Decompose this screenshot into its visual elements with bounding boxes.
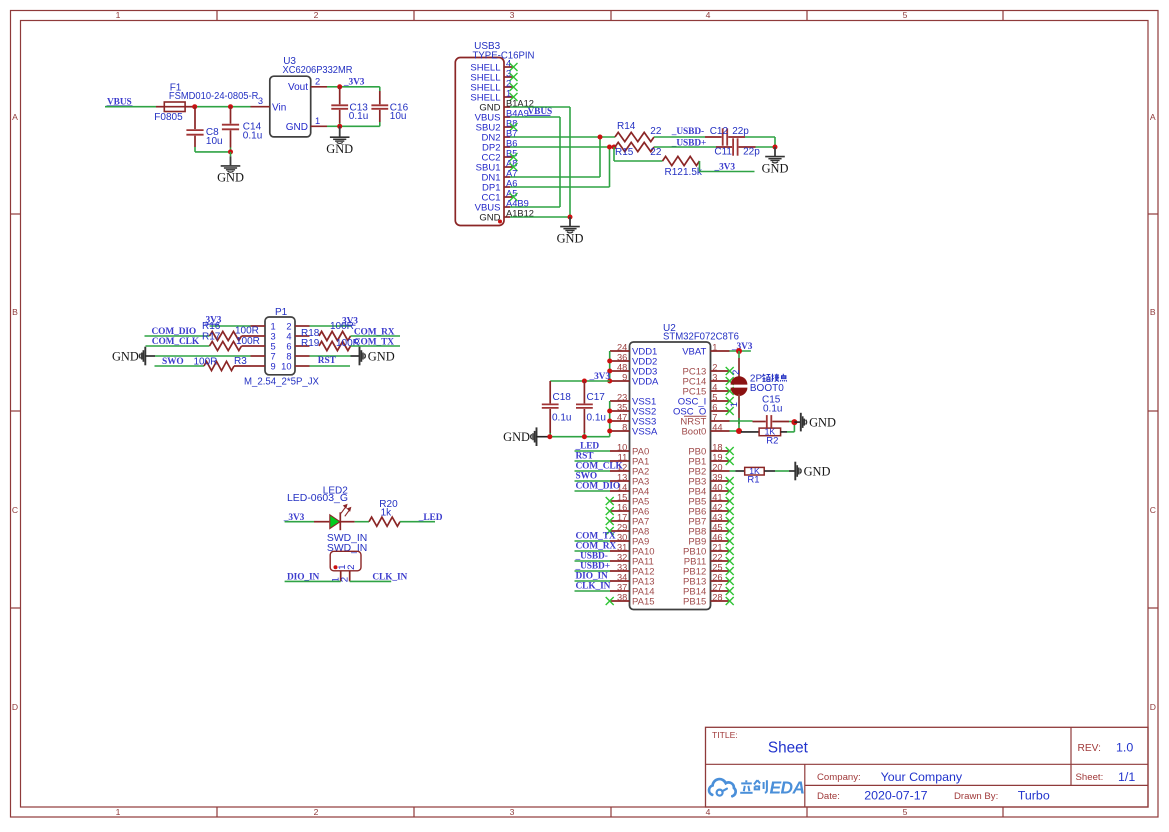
ground flag left [503,427,547,446]
svg-text:0.1u: 0.1u [243,130,262,141]
svg-text:4: 4 [706,807,711,817]
svg-text:31: 31 [617,542,627,552]
resistor R1 1K [736,466,796,486]
wire pin8 to GND [310,355,360,357]
net label COM_TX [576,532,616,542]
resistor R2 1K [741,427,787,447]
pin 2 PC13 [683,362,734,377]
svg-text:R17: R17 [202,331,221,342]
svg-text:3: 3 [271,331,276,341]
wire [575,580,611,582]
net label SWO [162,357,184,367]
svg-text:A5: A5 [506,188,517,198]
svg-text:Date:: Date: [817,791,840,802]
pin 9 VDDA [610,372,659,387]
svg-text:1.0: 1.0 [1116,741,1133,755]
capacitor C18 [542,381,572,437]
svg-text:_3V3: _3V3 [714,163,736,173]
svg-text:45: 45 [712,522,722,532]
svg-text:Sheet: Sheet [768,739,809,756]
pin 33 PA12 [610,562,655,577]
svg-text:15: 15 [617,492,627,502]
svg-text:23: 23 [617,392,627,402]
svg-text:R19: R19 [301,338,320,349]
net label COM_CLK [152,337,200,347]
ground [557,217,584,245]
junction [773,145,778,150]
label 2P short point [750,374,787,395]
wire DN2/DN1 [510,137,615,177]
svg-text:PB15: PB15 [683,596,706,607]
pin 10 PA0 [610,442,649,457]
svg-text:10: 10 [617,442,627,452]
resistor R16 [202,321,259,341]
pin B6 DP2 [482,138,517,153]
pin 48 VDD3 [610,362,657,377]
svg-text:_USBD-: _USBD- [671,127,704,137]
svg-text:D: D [12,702,18,712]
wire F1 to U3 Vin [194,106,250,108]
svg-text:R3: R3 [234,356,247,367]
pin 16 PA6 [606,502,650,517]
svg-text:40: 40 [712,482,722,492]
wire SWO [155,365,205,367]
wire GND rail [340,125,380,127]
pin 45 PB8 [688,522,733,537]
net label USBD- [575,552,608,562]
svg-text:R1: R1 [747,475,759,486]
svg-text:34: 34 [617,572,627,582]
svg-text:21: 21 [712,542,722,552]
svg-text:37: 37 [617,582,627,592]
pin 19 PB1 [688,452,733,467]
svg-text:1/1: 1/1 [1118,770,1135,784]
svg-text:2: 2 [314,807,319,817]
svg-text:2: 2 [314,10,319,20]
svg-text:A: A [1150,112,1156,122]
pin 38 PA15 [606,592,655,607]
pin 24 VDD1 [610,342,657,357]
svg-text:VBAT: VBAT [682,346,706,357]
svg-text:FSMD010-24-0805-R: FSMD010-24-0805-R [169,91,259,102]
svg-text:C: C [12,505,18,515]
pin 32 PA11 [610,552,654,567]
svg-text:Sheet:: Sheet: [1076,772,1104,783]
wire [575,560,611,562]
pin 12 PA2 [610,462,649,477]
pin A6 DP1 [482,178,517,193]
wire COM_DIO [145,335,210,337]
net label 3V3 [589,372,611,382]
wire GND B1A12 [510,107,570,217]
svg-text:1: 1 [315,116,320,126]
svg-text:GND: GND [503,430,530,444]
svg-text:C17: C17 [587,392,606,403]
svg-text:A8: A8 [506,158,517,168]
LED LED2 LED-0603_G [287,485,355,530]
svg-text:1: 1 [728,402,739,407]
pin 25 PB12 [683,562,734,577]
svg-text:2: 2 [730,370,741,375]
svg-text:44: 44 [712,422,722,432]
capacitor C14 [222,107,262,152]
net label 3V3 [205,316,222,326]
junction [337,84,342,89]
svg-text:Your Company: Your Company [881,770,963,784]
svg-text:22: 22 [712,552,722,562]
svg-text:22p: 22p [732,126,749,137]
svg-text:R15: R15 [615,147,634,158]
wire [575,540,611,542]
net label 3V3 [731,342,753,352]
pin 22 PB11 [684,552,734,567]
resistor R19 [301,338,360,351]
svg-text:2: 2 [346,565,357,570]
junction [192,104,197,109]
pin B4A9 VBUS [475,108,529,123]
svg-text:R12: R12 [665,167,684,178]
svg-text:41: 41 [712,492,722,502]
svg-text:4: 4 [286,331,291,341]
svg-text:_LED: _LED [418,513,443,523]
svg-text:VDDA: VDDA [632,376,659,387]
svg-text:Drawn By:: Drawn By: [954,791,998,802]
svg-text:BOOT0: BOOT0 [750,383,784,394]
svg-text:100R: 100R [235,326,259,337]
junction [791,419,797,425]
svg-text:4: 4 [712,382,717,392]
net label COM_RX [354,327,395,337]
wire C8 to C14 bottom [195,151,231,153]
pin A1B12 GND [479,208,534,223]
svg-text:TYPE-C16PIN: TYPE-C16PIN [473,50,535,61]
net label COM_DIO [152,327,197,337]
svg-text:32: 32 [617,552,627,562]
pin A8 SBU1 [476,158,518,173]
svg-text:GND: GND [809,416,836,430]
svg-text:48: 48 [617,362,627,372]
capacitor C11 [714,138,760,157]
ground [326,126,353,156]
svg-text:10u: 10u [206,136,223,147]
svg-text:10u: 10u [390,111,407,122]
svg-text:5: 5 [271,341,276,351]
svg-text:28: 28 [712,592,722,602]
wire PB2 row [730,470,736,472]
ground flag left [112,347,155,366]
pin 17 PA7 [606,512,650,527]
wire Boot0 row [730,430,740,432]
svg-text:42: 42 [712,502,722,512]
svg-text:46: 46 [712,532,722,542]
svg-text:TITLE:: TITLE: [712,730,738,740]
net label VBUS [107,98,133,108]
svg-text:GND: GND [804,465,831,479]
MCU U2 STM32F072C8T6 [630,323,740,610]
svg-text:Company:: Company: [817,772,861,783]
pin 11 PA1 [610,452,649,467]
pin 8 VSSA [610,422,658,437]
capacitor C8 [186,107,222,152]
svg-text:REV:: REV: [1078,743,1101,754]
pin 41 PB5 [688,492,733,507]
net label 3V3 [341,317,358,327]
svg-text:Boot0: Boot0 [681,426,706,437]
pin 44 Boot0 [681,422,729,437]
pin 36 VDD2 [610,352,657,367]
wire R18 to COM_RX [351,335,401,337]
svg-text:R14: R14 [617,121,636,132]
pin B8 SBU2 [476,118,518,133]
svg-text:P1: P1 [275,307,288,318]
regulator U3 XC6206P332MR [270,56,353,137]
svg-text:17: 17 [617,512,627,522]
net label RST [318,356,337,366]
svg-text:25: 25 [712,562,722,572]
net label COM_TX [354,337,394,347]
pin A5 CC1 [481,188,517,203]
svg-text:100R: 100R [236,336,260,347]
svg-text:3: 3 [510,807,515,817]
net label COM_CLK [576,462,624,472]
wire [575,480,611,482]
pin 2 SHELL [470,78,517,93]
wire R15 to C11 [654,146,716,148]
junction [228,104,233,109]
pin 30 PA9 [610,532,649,547]
wire C15 to GND [789,421,794,423]
jumper 2P short point BOOT0 [728,351,747,431]
svg-text:Vout: Vout [288,82,308,93]
wire 3V3 to pin1 [210,325,251,327]
svg-text:22: 22 [650,126,662,137]
wire [575,550,611,552]
pin B7 DN2 [481,128,517,143]
wire GND to pin7 [155,355,251,357]
pin 29 PA8 [606,522,650,537]
svg-text:0.1u: 0.1u [552,412,571,423]
pin 20 PB2 [688,462,729,477]
capacitor C12 [705,126,749,146]
pin 5 OSC_I [678,392,734,407]
junction [607,145,617,150]
svg-text:22: 22 [650,147,662,158]
svg-text:GND: GND [217,171,244,185]
wire [575,470,611,472]
wire C12 to GND [745,137,775,147]
svg-text:29: 29 [617,522,627,532]
junction [337,124,342,129]
svg-text:5: 5 [712,392,717,402]
svg-text:27: 27 [712,582,722,592]
svg-text:16: 16 [617,502,627,512]
wire CLK_IN [350,580,392,582]
pin 18 PB0 [688,442,733,457]
net label CLK_IN [372,573,407,583]
pin 3 SHELL [470,68,517,83]
ground [217,152,244,185]
pin 43 PB7 [688,512,733,527]
wire VBAT to 3V3 [730,350,751,352]
ground flag right [794,413,836,432]
pin 1 [331,571,342,583]
pin 46 PB9 [688,532,733,547]
wire GND rail [548,436,610,438]
svg-text:39: 39 [712,472,722,482]
connector USB3 TYPE-C16PIN [455,41,534,225]
svg-text:XC6206P332MR: XC6206P332MR [283,65,353,76]
svg-text:35: 35 [617,402,627,412]
svg-text:8: 8 [286,351,291,361]
svg-text:B5: B5 [506,148,517,158]
svg-text:6: 6 [286,341,291,351]
net label USBD- [671,127,704,137]
pin 26 PB13 [683,572,734,587]
svg-text:Turbo: Turbo [1018,789,1050,803]
pin 2 Vout [311,76,340,87]
svg-text:24: 24 [617,342,627,352]
svg-text:_3V3: _3V3 [343,77,365,87]
resistor R3 [194,356,251,371]
capacitor C17 [576,381,606,437]
wire [575,570,611,572]
resistor R14 [615,121,662,142]
net label RST [576,452,595,462]
svg-text:EDA: EDA [770,778,805,798]
pin 1 SHELL [470,88,517,103]
pin A4B9 VBUS [475,198,529,213]
pin 27 PB14 [683,582,734,597]
ground flag right [360,347,395,366]
svg-text:R16: R16 [202,321,221,332]
resistor R17 [202,331,260,350]
pin 6 OSC_O [673,402,734,417]
resistor R18 [301,321,354,340]
pin 35 VSS2 [610,402,656,417]
pin 15 PA5 [606,492,650,507]
svg-text:9: 9 [271,361,276,371]
wire 3V3 rail [340,87,380,91]
svg-text:100R: 100R [330,321,354,332]
pin 3 Vin [251,96,270,107]
svg-text:PA15: PA15 [632,596,655,607]
svg-text:B: B [12,307,18,317]
svg-text:10: 10 [281,361,291,371]
ground flag right [795,462,830,481]
net label DIO_IN [287,573,320,583]
svg-text:43: 43 [712,512,722,522]
svg-text:8: 8 [622,422,627,432]
svg-text:VSSA: VSSA [632,426,658,437]
svg-text:0.1u: 0.1u [349,111,368,122]
svg-text:1: 1 [116,807,121,817]
net label 3V3 [714,163,736,173]
junction [607,359,612,384]
pin 28 PB15 [683,592,734,607]
svg-text:22p: 22p [743,146,760,157]
wire [575,450,611,452]
svg-text:47: 47 [617,412,627,422]
svg-text:3: 3 [258,96,263,106]
wire GND A1B12 [510,216,570,218]
svg-text:C18: C18 [553,392,572,403]
junction [736,428,742,434]
svg-text:GND: GND [762,161,789,175]
svg-text:20: 20 [712,462,722,472]
svg-text:C: C [1150,505,1156,515]
pin 47 VSS3 [610,412,656,427]
svg-text:STM32F072C8T6: STM32F072C8T6 [663,332,739,343]
svg-text:A: A [12,112,18,122]
svg-text:GND: GND [368,350,395,364]
wire LED2 to R20 [355,521,369,523]
wire 3V3 rail to caps [550,380,610,382]
svg-text:7: 7 [712,412,717,422]
net label USBD+ [671,138,706,148]
svg-text:19: 19 [712,452,722,462]
wire [575,490,611,492]
svg-text:RST: RST [318,356,337,366]
wire pin2 to 3V3 [310,325,352,327]
pin 21 PB10 [683,542,734,557]
header P1 M_2.54_2*5P_JX [244,307,319,387]
svg-text:1: 1 [271,321,276,331]
svg-text:26: 26 [712,572,722,582]
junction [568,215,573,220]
svg-text:GND: GND [286,122,308,133]
net label 3V3 [343,77,365,87]
fuse F1 [154,82,258,123]
svg-text:0.1u: 0.1u [763,404,782,415]
svg-text:38: 38 [617,592,627,602]
pin 34 PA13 [610,572,655,587]
jumper SWD_IN [327,533,367,571]
svg-text:100R: 100R [194,356,218,367]
wire DP to R12 [614,147,663,161]
net label COM_RX [576,542,617,552]
capacitor C13 [331,87,368,127]
svg-text:GND: GND [479,212,500,223]
wire [575,590,611,592]
svg-text:1: 1 [116,10,121,20]
capacitor C15 [753,394,790,428]
pin 40 PB4 [688,482,733,497]
svg-text:6: 6 [712,402,717,412]
net label LED [418,513,443,523]
junction [736,348,742,354]
svg-text:3: 3 [510,10,515,20]
pin 1 VBAT [682,342,729,357]
svg-text:7: 7 [271,351,276,361]
wire R20 to LED net [400,521,435,523]
junction [228,149,233,154]
wire 3V3 to LED2 [285,521,314,523]
junction [582,379,587,384]
svg-text:GND: GND [326,142,353,156]
svg-text:C12: C12 [710,126,729,137]
svg-text:M_2.54_2*5P_JX: M_2.54_2*5P_JX [244,376,319,387]
net label VBUS [527,107,552,117]
svg-text:2: 2 [315,76,320,86]
pin 13 PA3 [610,472,649,487]
pin 39 PB3 [688,472,733,487]
svg-text:36: 36 [617,352,627,362]
title block [706,727,1149,807]
wire DP2/DP1 [510,147,615,187]
svg-text:0.1u: 0.1u [587,412,606,423]
svg-text:LED-0603_G: LED-0603_G [287,493,348,504]
junction [598,135,603,140]
